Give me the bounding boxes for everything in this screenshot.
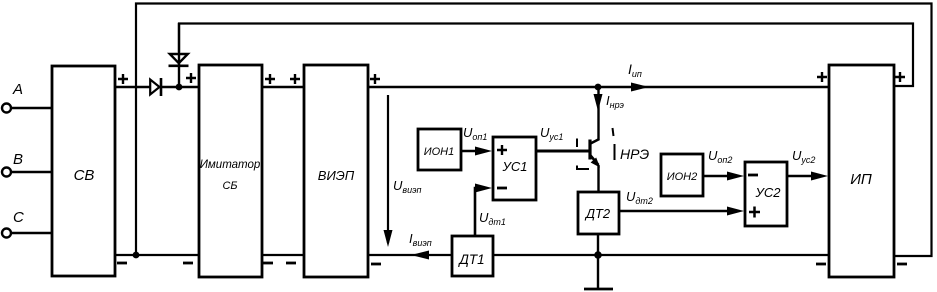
svg-text:НРЭ: НРЭ	[620, 146, 649, 162]
transistor NRE (NPN)	[590, 87, 600, 192]
arrow current I_ip	[631, 83, 649, 92]
arrow voltage U_viep	[384, 95, 393, 247]
wire terminal C to CB	[11, 232, 53, 234]
wire terminal B to CB	[11, 171, 53, 173]
block VIEP	[304, 65, 368, 277]
node junction feedback to bus	[133, 252, 140, 259]
svg-text:ИОН1: ИОН1	[424, 146, 455, 158]
wire US1 output to transistor base	[536, 150, 589, 153]
terminal C	[2, 209, 24, 238]
wire US2 to IP with arrow	[787, 172, 828, 181]
block US1 amplifier	[493, 137, 536, 200]
wire main plus line Imitator to VIEP	[262, 86, 304, 88]
bus minus line CB to Imitator	[115, 254, 199, 256]
wire main plus line VIEP to IP	[368, 86, 829, 88]
svg-text:УС1: УС1	[502, 159, 528, 174]
terminal A	[2, 81, 23, 113]
wire main plus line CB to diode	[115, 86, 150, 88]
block Imitator SB	[199, 65, 262, 277]
wire DT1 to US1 minus input with arrow	[475, 184, 492, 237]
wire terminal A to CB	[11, 107, 53, 109]
wire feedback plus loop	[179, 24, 913, 87]
wire ION2 to US2 with arrow	[703, 172, 744, 181]
svg-text:ДТ1: ДТ1	[457, 252, 484, 267]
wire feedback outer minus loop	[136, 4, 932, 257]
arrow current I_nre	[594, 94, 603, 111]
transistor case dashes	[577, 128, 615, 170]
plus sign Imitator input	[186, 73, 196, 83]
svg-text:C: C	[13, 209, 24, 226]
svg-text:ВИЭП: ВИЭП	[318, 168, 355, 183]
block DT1	[452, 236, 493, 276]
minus sign IP bottom right	[897, 263, 907, 266]
svg-text:ИП: ИП	[850, 171, 872, 188]
ground	[584, 255, 613, 289]
node collector junction	[595, 84, 602, 91]
wire diode to Imitator	[161, 86, 199, 88]
svg-text:ИОН2: ИОН2	[667, 171, 698, 183]
svg-text:ДТ2: ДТ2	[584, 206, 611, 221]
node diode junction	[176, 84, 183, 91]
wire DT2 to US2 with arrow	[619, 207, 744, 216]
diode VD1 series	[150, 78, 161, 96]
svg-text:B: B	[13, 151, 23, 168]
block IP (load)	[829, 65, 894, 277]
minus sign Imitator bottom right	[263, 262, 273, 265]
bus minus line VIEP to DT1	[368, 254, 452, 256]
bus minus line Imitator to VIEP	[262, 254, 304, 256]
terminal B	[2, 151, 23, 177]
block US2 amplifier	[745, 162, 787, 226]
wire DT2 bottom to ground bus	[597, 234, 599, 255]
svg-text:A: A	[12, 81, 23, 98]
svg-text:Имитатор: Имитатор	[200, 159, 261, 171]
wire ION1 to US1 with arrow	[461, 147, 492, 156]
minus sign IP bottom left	[816, 263, 826, 266]
block CB (rectifier)	[52, 66, 115, 276]
minus sign CB bottom	[117, 262, 127, 265]
svg-text:СВ: СВ	[74, 167, 95, 184]
minus sign Imitator bottom left	[183, 262, 193, 265]
diode VD2 shunt (to top feedback)	[169, 23, 189, 87]
bus minus line DT1 to IP	[494, 254, 829, 256]
block ION2	[661, 154, 703, 196]
plus sign Imitator output	[265, 74, 275, 84]
block ION1	[418, 129, 461, 170]
plus sign VIEP output	[370, 74, 380, 84]
plus sign CB output	[118, 74, 128, 84]
plus sign IP right	[895, 72, 905, 82]
svg-text:УС2: УС2	[755, 185, 782, 200]
arrow current I_viep on bus	[411, 251, 429, 260]
plus sign VIEP input	[290, 74, 300, 84]
svg-text:СБ: СБ	[222, 180, 237, 192]
minus sign VIEP bottom right	[371, 263, 381, 266]
node ground junction	[594, 251, 602, 259]
block DT2	[578, 192, 619, 234]
plus sign IP input left	[817, 72, 827, 82]
minus sign VIEP bottom left	[286, 262, 296, 265]
